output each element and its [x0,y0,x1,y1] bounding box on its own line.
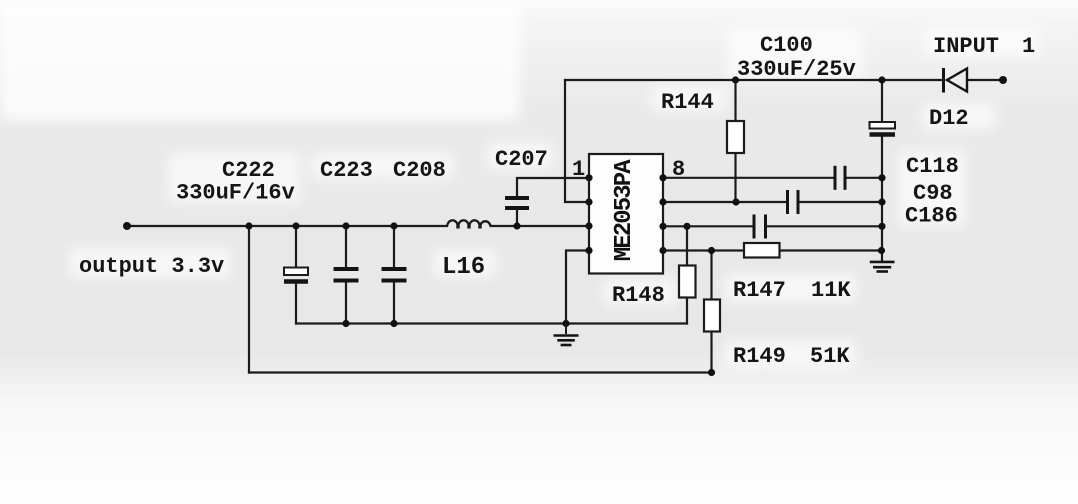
node C222 tap [292,222,299,229]
pin 7 U1 [659,198,666,205]
pin 3 U1 [585,222,592,229]
resistor R147 [744,243,780,258]
wire pin 8 row [663,177,835,179]
node C100 top junction [878,76,885,83]
resistor R149 [704,300,720,332]
svg-text:5: 5 [611,197,638,211]
node ground junction [562,320,569,327]
node rail drop junction [245,222,252,229]
svg-text:D12: D12 [929,106,969,131]
svg-text:R147: R147 [733,278,786,303]
wire R149 bottom stub [710,332,712,373]
wire R148 bottom elbow [686,298,688,324]
node C208 tap [390,222,397,229]
wire pin 6 row [663,225,754,227]
wire right bus upper stub [881,80,883,122]
svg-text:INPUT: INPUT [933,34,999,59]
pin 6 U1 [659,223,666,230]
wire output rail [127,225,447,227]
node C208 ground tap [390,320,397,327]
node C186 right junction [878,223,885,230]
svg-text:P: P [611,172,638,186]
capacitor C186 [754,215,766,239]
svg-text:2: 2 [611,222,638,236]
pin 5 U1 [659,247,666,254]
svg-text:1: 1 [1022,34,1035,59]
pin 1 U1 [585,174,592,181]
node R148 top junction [683,223,690,230]
wire C222 top stub [295,226,297,268]
capacitor C100 electrolytic [870,122,896,135]
svg-text:R144: R144 [661,90,714,115]
svg-text:R148: R148 [612,283,665,308]
capacitor C98 [788,190,799,214]
wire pin 7 row [663,201,788,203]
capacitor C118 [835,166,845,190]
svg-text:C207: C207 [495,147,548,172]
wire R149 top stub [710,251,712,300]
wire pin 4 to ground riser [566,251,589,324]
ground left [554,336,579,346]
text halos [70,28,1038,368]
resistor R144 [727,121,744,153]
wire capacitor ground bus [296,322,687,324]
node output terminal [123,222,131,230]
wire left ground stub [565,324,567,335]
resistor R148 [679,266,696,298]
wire drop at x249 [248,226,250,373]
svg-text:330uF/25v: 330uF/25v [737,57,856,82]
svg-text:C118: C118 [906,154,959,179]
capacitor C208 [382,269,407,281]
wire long bottom run [249,371,712,373]
svg-text:C186: C186 [905,204,958,229]
pin 2 U1 [585,198,592,205]
wire top rail left segment [565,79,943,81]
svg-text:C208: C208 [393,158,446,183]
svg-text:C222: C222 [222,158,275,183]
svg-text:11K: 11K [811,278,851,303]
node R147 right junction [878,247,885,254]
wire pin 1 to C207 top [517,178,589,197]
diode D12 [944,68,968,93]
svg-text:330uF/16v: 330uF/16v [176,181,295,206]
svg-text:3: 3 [611,184,638,198]
inductor L16 [447,220,491,228]
node C223 ground tap [342,320,349,327]
node input terminal [999,76,1007,84]
wire pin 5 row to R147 [663,249,744,251]
capacitor C222 electrolytic [284,268,308,282]
svg-text:output 3.3v: output 3.3v [79,254,224,279]
svg-text:L16: L16 [442,254,485,281]
wire R148 top stub [686,226,688,265]
wire C223 stubs [345,226,347,267]
wire R144 stubs [734,80,736,121]
svg-text:R149: R149 [733,344,786,369]
wire R147 to right ground [780,249,882,251]
wire right bus [881,136,883,261]
pin 8 U1 [659,174,666,181]
wire diode to input terminal [967,79,1003,81]
node C223 tap [342,222,349,229]
svg-text:1: 1 [572,157,585,182]
node R144 top junction [732,76,739,83]
svg-text:C98: C98 [913,181,953,206]
capacitor C207 [505,198,529,208]
node R144 bottom junction [732,198,739,205]
svg-text:A: A [611,159,638,174]
svg-text:M: M [611,247,638,261]
pin 4 U1 [585,247,592,254]
node C118 right junction [878,174,885,181]
wire C208 stubs [393,226,395,267]
capacitor C223 [334,269,359,281]
node L16/C207 junction [513,222,520,229]
op ic U1 AP3502EM [589,154,663,274]
node C98 right junction [878,198,885,205]
wire rail inductor to pin 3 [491,225,589,227]
wire C207 bottom stub [516,209,518,226]
svg-text:51K: 51K [810,344,850,369]
svg-text:0: 0 [611,209,638,223]
node R149 top junction [708,247,715,254]
svg-text:8: 8 [672,157,685,182]
wire riser from top rail to pin 2 [565,80,589,202]
svg-text:C100: C100 [760,33,813,58]
node R149 bottom junction [708,369,715,376]
svg-text:E: E [611,234,638,248]
svg-text:C223: C223 [320,158,373,183]
wire C222 bottom stub [295,284,297,324]
ground right [870,262,895,272]
